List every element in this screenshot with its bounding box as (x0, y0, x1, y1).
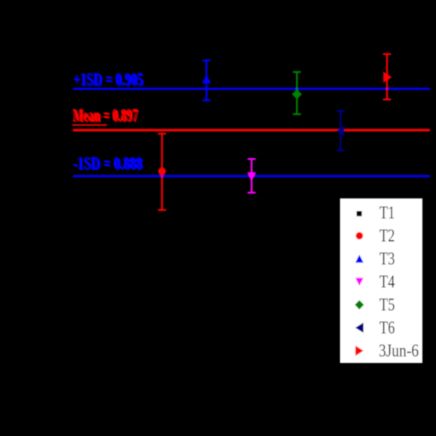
svg-text:T5: T5 (379, 295, 395, 315)
svg-text:-1SD = 0.888: -1SD = 0.888 (73, 153, 142, 173)
svg-text:T1: T1 (379, 203, 395, 223)
svg-text:Mean = 0.897: Mean = 0.897 (72, 105, 137, 125)
svg-text:T2: T2 (379, 226, 395, 246)
svg-text:+1SD = 0.905: +1SD = 0.905 (73, 69, 143, 89)
svg-text:3Jun-6: 3Jun-6 (379, 341, 419, 361)
svg-text:T6: T6 (379, 318, 395, 338)
svg-text:T4: T4 (379, 272, 395, 292)
svg-text:T3: T3 (379, 249, 395, 269)
